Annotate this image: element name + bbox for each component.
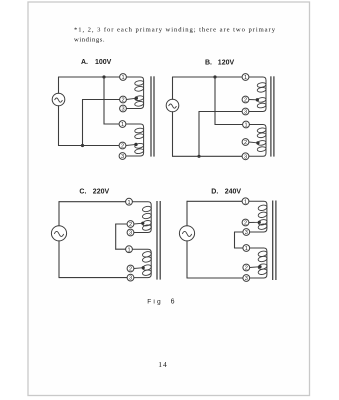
svg-text:1: 1 <box>121 122 124 128</box>
svg-text:*1, 2, 3 for each primary wind: *1, 2, 3 for each primary winding; there… <box>74 27 276 34</box>
wire: V4 bottom lead (circuit D) <box>186 241 188 278</box>
svg-text:B.: B. <box>205 60 212 67</box>
wire: circuit D series jumper drop <box>234 232 236 248</box>
wire: circuit D P2 tap lead <box>250 266 260 269</box>
wire: circuit B terminal-3 feeder drop <box>198 112 200 157</box>
primary winding P2 coil (circuit D) <box>250 248 268 278</box>
svg-text:100V: 100V <box>95 59 112 66</box>
transformer core (circuit A) <box>151 76 154 156</box>
svg-text:2: 2 <box>129 222 132 228</box>
pin 3 of winding P2 (circuit C) <box>127 274 134 281</box>
transformer core (circuit C) <box>157 201 160 280</box>
tap dot on winding P2 (circuit B) <box>256 141 259 144</box>
pin 3 of winding P1 (circuit D) <box>243 229 250 236</box>
tap dot on winding P1 (circuit A) <box>135 97 138 100</box>
pin 2 of winding P1 (circuit B) <box>242 96 249 103</box>
svg-text:1: 1 <box>244 199 247 205</box>
wire: V1 bottom lead (circuit A) <box>58 106 60 146</box>
pin 3 of winding P2 (circuit B) <box>242 153 249 160</box>
svg-text:6: 6 <box>171 298 175 305</box>
AC source V3 (circuit C) <box>51 226 66 241</box>
wire: circuit B P2 tap lead <box>249 141 258 144</box>
svg-text:1: 1 <box>127 200 130 206</box>
wire: circuit D P1 tap lead <box>249 221 259 223</box>
junction: circuit B top rail node <box>213 75 216 78</box>
wire: circuit A P1 tap lead <box>126 98 136 99</box>
wire: circuit D top rail to terminal 1 of upper winding <box>187 200 242 202</box>
tap dot on winding P2 (circuit C) <box>142 266 145 269</box>
wire: circuit C series jumper horizontal (terminal 2 upper) <box>116 223 127 225</box>
primary winding P1 coil (circuit C) <box>132 202 151 233</box>
wire: circuit A P2 tap lead <box>126 144 136 145</box>
note text: *1, 2, 3 for each primary winding; there are two primary windings. <box>74 27 276 44</box>
tap dot on winding P2 (circuit D) <box>258 265 261 268</box>
svg-text:2: 2 <box>244 140 247 146</box>
pin 2 of winding P1 (circuit A) <box>120 96 127 103</box>
pin 1 of winding P2 (circuit A) <box>119 121 126 128</box>
wire: V3 top lead (circuit C) <box>58 202 60 226</box>
svg-text:windings.: windings. <box>74 36 105 43</box>
svg-text:1: 1 <box>245 246 248 252</box>
primary winding P1 coil (circuit A) <box>126 77 144 109</box>
pin 1 of winding P2 (circuit B) <box>243 121 250 128</box>
svg-text:240V: 240V <box>225 189 242 196</box>
wire: circuit A bottom rail to terminal 2 of lower winding <box>59 145 120 147</box>
primary winding P2 coil (circuit B) <box>249 125 266 157</box>
label D. 240V <box>211 189 241 196</box>
svg-text:3: 3 <box>129 231 132 237</box>
pin 1 of winding P2 (circuit C) <box>126 246 133 253</box>
wire: circuit A terminal 2 (upper) feeder <box>83 99 120 101</box>
pin 1 of winding P1 (circuit D) <box>242 198 249 205</box>
label A. 100V <box>81 59 112 66</box>
AC source V4 (circuit D) <box>179 226 194 241</box>
wire: V4 top lead (circuit D) <box>186 201 188 225</box>
wire: circuit B bottom rail to terminal 3 of lower winding <box>173 155 243 157</box>
primary winding P1 coil (circuit B) <box>249 77 266 112</box>
pin 2 of winding P2 (circuit B) <box>242 139 249 146</box>
pin 1 of winding P1 (circuit B) <box>242 74 249 81</box>
wire: V2 top lead (circuit B) <box>172 77 174 99</box>
wire: circuit B P1 tap lead <box>249 99 257 101</box>
wire: circuit C series jumper drop <box>115 224 117 249</box>
wire: circuit B top rail to terminal 1 of lower winding <box>215 77 243 125</box>
wire: circuit D series jumper to terminal 1 of lower winding <box>235 247 243 249</box>
tap dot on winding P2 (circuit A) <box>134 143 137 146</box>
svg-text:2: 2 <box>244 98 247 104</box>
svg-text:D.: D. <box>211 189 218 196</box>
AC source V1 (circuit A) <box>52 93 65 106</box>
primary winding P2 coil (circuit C) <box>132 249 151 277</box>
wire: circuit B top rail to terminal 1 of upper winding <box>173 76 243 78</box>
pin 2 of winding P2 (circuit D) <box>243 264 250 271</box>
primary winding P1 coil (circuit D) <box>249 201 268 232</box>
svg-text:14: 14 <box>158 360 167 369</box>
junction: circuit B bottom rail node <box>197 155 200 158</box>
wire: circuit C series jumper to terminal 1 of lower winding <box>116 248 126 250</box>
svg-text:C.: C. <box>79 188 86 195</box>
svg-text:3: 3 <box>121 107 124 113</box>
svg-text:1: 1 <box>127 247 130 253</box>
svg-text:3: 3 <box>121 154 124 160</box>
wire: circuit C P1 tap lead <box>134 222 143 225</box>
pin 3 of winding P1 (circuit C) <box>127 229 134 236</box>
svg-text:3: 3 <box>245 276 248 282</box>
tap dot on winding P1 (circuit D) <box>258 221 261 224</box>
label Fig 6 <box>147 298 174 305</box>
wire: circuit C P2 tap lead <box>134 267 143 270</box>
svg-text:Fig: Fig <box>147 298 162 305</box>
transformer core (circuit B) <box>271 76 274 156</box>
wire: circuit D bottom rail to terminal 3 of lower winding <box>187 277 243 279</box>
svg-text:220V: 220V <box>93 188 110 195</box>
svg-text:2: 2 <box>244 221 247 227</box>
svg-text:3: 3 <box>129 276 132 282</box>
AC source V2 (circuit B) <box>166 99 179 112</box>
pin 2 of winding P2 (circuit A) <box>119 142 126 149</box>
tap dot on winding P1 (circuit B) <box>256 98 259 101</box>
pin 3 of winding P1 (circuit A) <box>120 105 127 112</box>
pin 1 of winding P2 (circuit D) <box>243 245 250 252</box>
pin 3 of winding P1 (circuit B) <box>242 108 249 115</box>
pin 3 of winding P2 (circuit A) <box>119 153 126 160</box>
svg-text:A.: A. <box>81 59 88 66</box>
transformer core (circuit D) <box>273 201 276 281</box>
junction: circuit A top rail node <box>102 75 105 78</box>
pin 1 of winding P1 (circuit A) <box>120 74 127 81</box>
pin 2 of winding P1 (circuit D) <box>242 219 249 226</box>
wire: circuit C bottom rail to terminal 3 of lower winding <box>59 277 127 279</box>
wire: circuit A top rail to terminal 1 of lower winding <box>104 77 119 124</box>
pin 2 of winding P1 (circuit C) <box>127 221 134 228</box>
pin 1 of winding P1 (circuit C) <box>126 198 133 205</box>
svg-text:1: 1 <box>121 75 124 81</box>
wire: circuit A terminal-2 feeder drop <box>82 100 84 146</box>
junction: circuit A bottom rail node <box>81 144 84 147</box>
pin 3 of winding P2 (circuit D) <box>243 275 250 282</box>
wire: circuit B terminal 3 (upper) feeder <box>199 111 242 113</box>
pin 2 of winding P2 (circuit C) <box>127 265 134 272</box>
label B. 120V <box>205 60 234 67</box>
svg-text:3: 3 <box>244 110 247 116</box>
svg-text:2: 2 <box>121 98 124 104</box>
wire: circuit A top rail to terminal 1 of upper winding <box>59 76 120 78</box>
svg-text:1: 1 <box>244 123 247 129</box>
wire: circuit D series jumper horizontal (terminal 3 upper) <box>235 231 243 233</box>
svg-text:2: 2 <box>245 266 248 272</box>
primary winding P2 coil (circuit A) <box>126 124 144 156</box>
tap dot on winding P1 (circuit C) <box>141 222 144 225</box>
svg-text:3: 3 <box>245 230 248 236</box>
svg-text:120V: 120V <box>218 60 235 67</box>
svg-text:2: 2 <box>121 144 124 150</box>
wire: circuit C top rail to terminal 1 of upper winding <box>59 201 126 203</box>
wire: V3 bottom lead (circuit C) <box>58 241 60 278</box>
svg-text:3: 3 <box>244 154 247 160</box>
svg-text:1: 1 <box>244 75 247 81</box>
wire: V1 top lead (circuit A) <box>58 77 60 93</box>
wire: V2 bottom lead (circuit B) <box>172 112 174 157</box>
label C. 220V <box>79 188 109 195</box>
svg-text:2: 2 <box>129 267 132 273</box>
